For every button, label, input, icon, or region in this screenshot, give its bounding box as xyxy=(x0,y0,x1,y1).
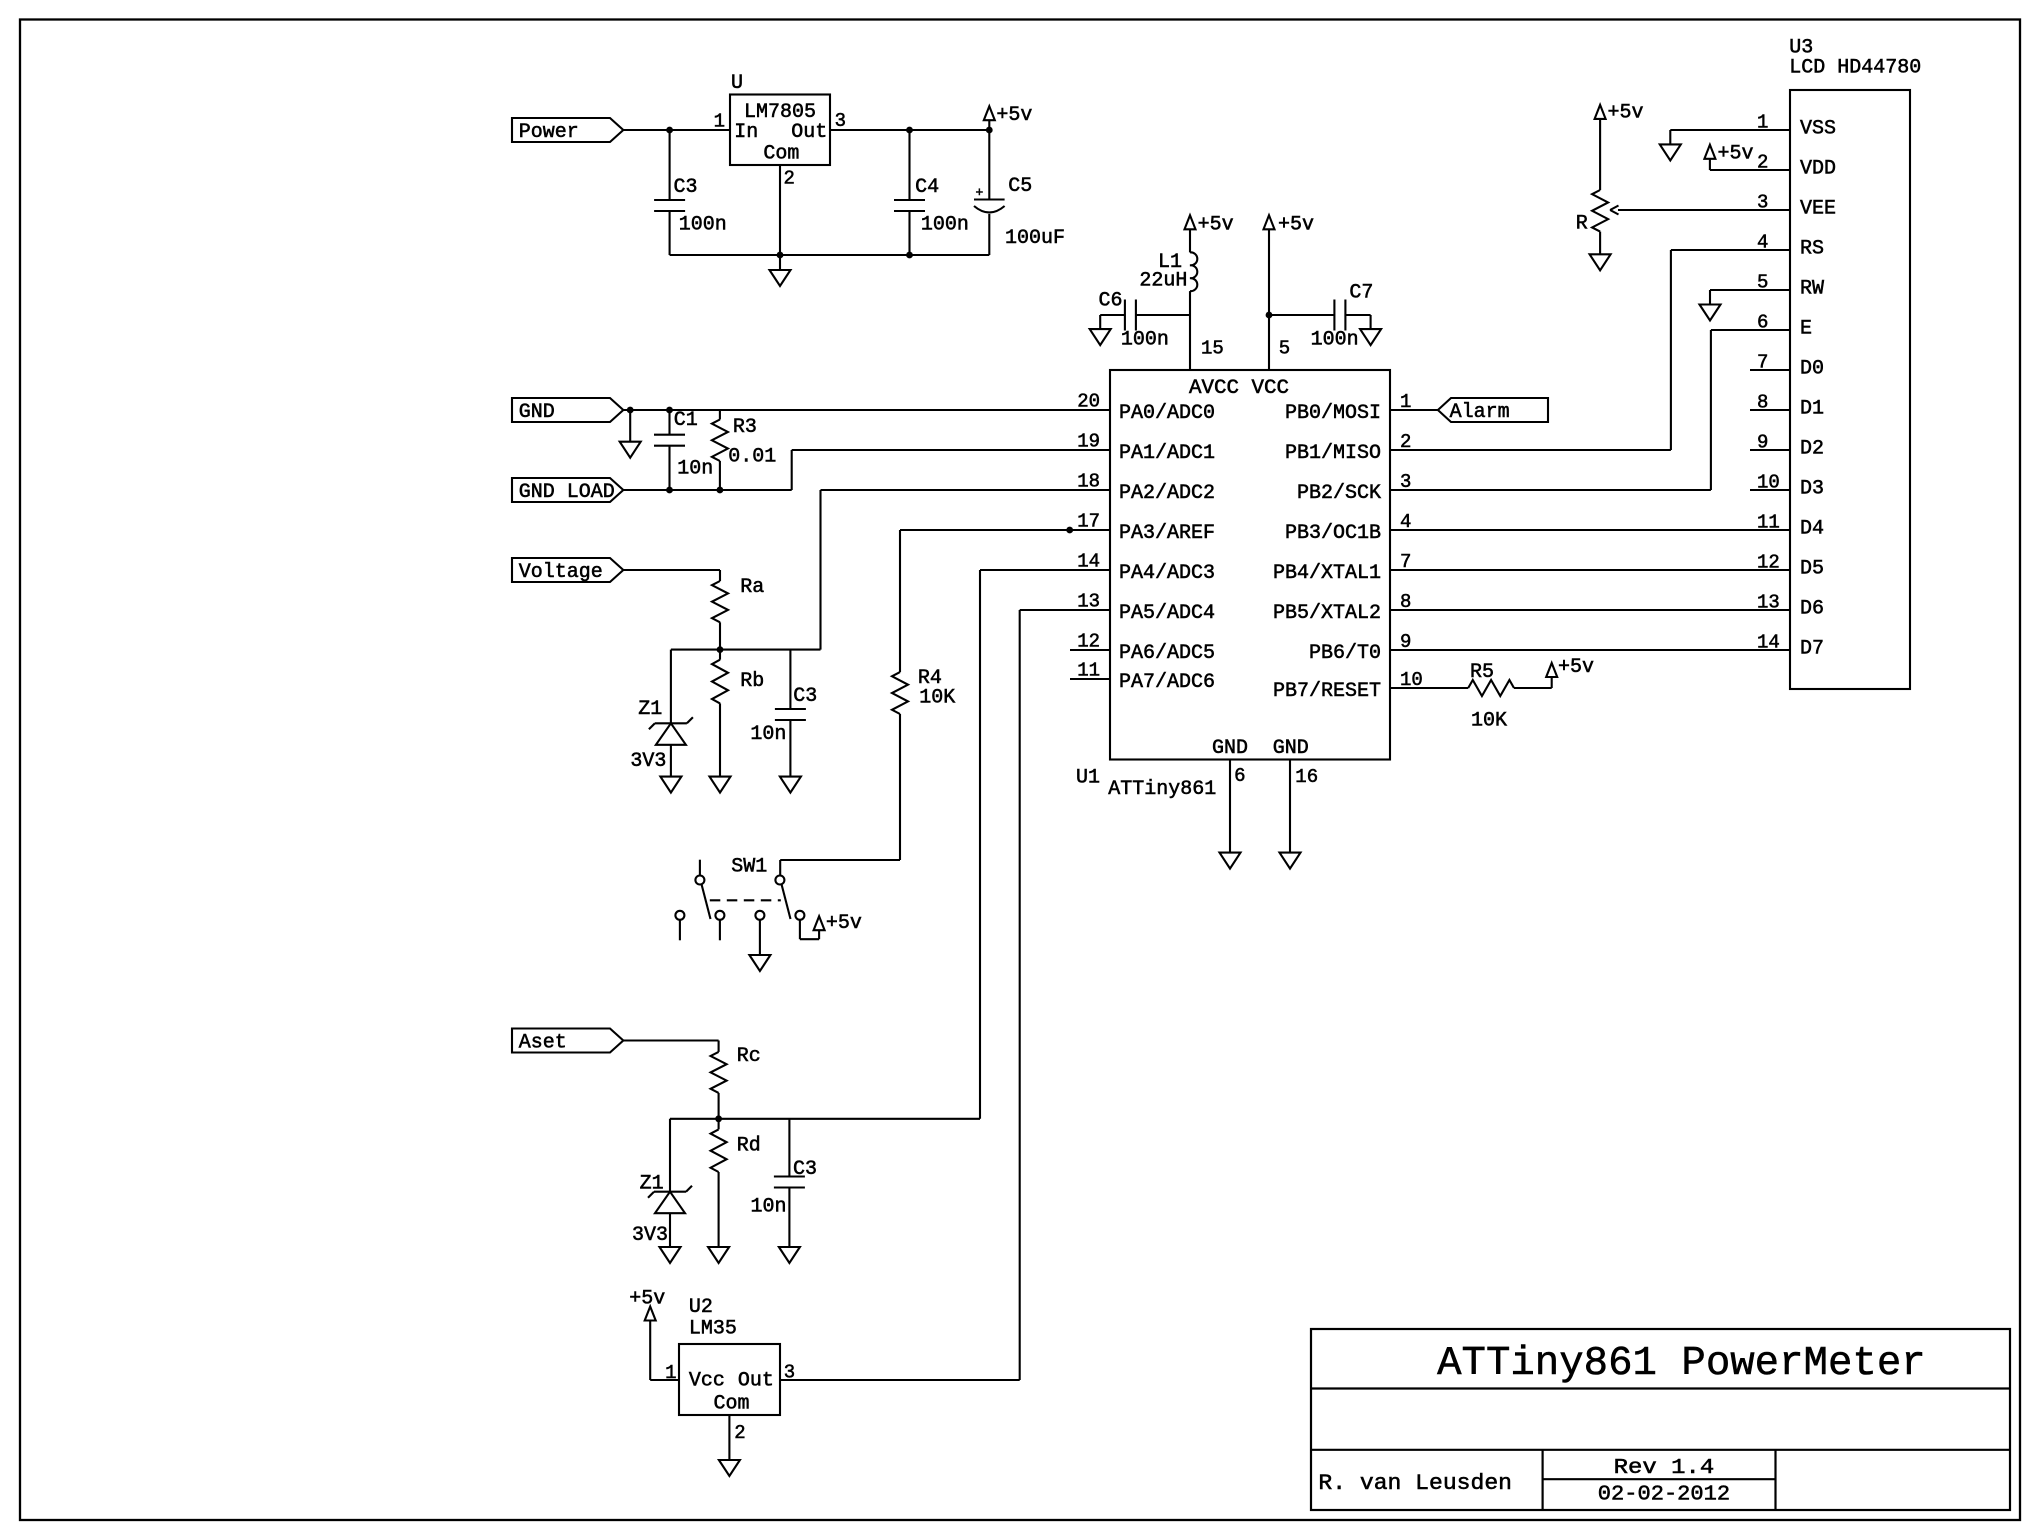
LCD pin name D6 xyxy=(1800,598,1824,621)
label U xyxy=(731,72,743,95)
label +5v xyxy=(996,104,1032,127)
title block vertical divider 1 xyxy=(1541,1450,1543,1510)
svg-text:U: U xyxy=(731,72,743,95)
svg-text:PB5/XTAL2: PB5/XTAL2 xyxy=(1273,602,1381,625)
pin name PA7/ADC6 xyxy=(1119,671,1215,694)
wire R4 bottom to SW1 xyxy=(780,714,900,876)
node junction dot C3-in xyxy=(666,127,673,134)
pin number 14 xyxy=(1077,551,1100,573)
power symbol +5v at VDD xyxy=(1704,145,1715,170)
LCD pin 13 D6 stub xyxy=(1750,609,1790,611)
svg-text:D0: D0 xyxy=(1800,358,1824,381)
ground below power section xyxy=(770,255,791,286)
LCD pin name D1 xyxy=(1800,398,1824,421)
inductor L1 22uH xyxy=(1190,252,1197,315)
node junction dot gnd-sym xyxy=(627,407,634,414)
svg-text:GND LOAD: GND LOAD xyxy=(519,481,615,504)
node junction dot C4-gnd xyxy=(906,252,913,259)
LCD pin number 10 xyxy=(1757,472,1780,494)
LCD pin 2 VDD stub xyxy=(1750,169,1790,171)
label U3 xyxy=(1789,37,1813,60)
value 100n xyxy=(1121,329,1169,352)
node junction dot AREF xyxy=(1066,527,1073,534)
value 10n xyxy=(677,457,713,480)
ic U2 LM35 box xyxy=(679,1344,780,1415)
svg-text:Z1: Z1 xyxy=(640,1173,664,1196)
svg-text:Alarm: Alarm xyxy=(1450,401,1510,424)
pin name PB1/MISO xyxy=(1285,442,1381,465)
svg-text:E: E xyxy=(1800,318,1812,341)
node junction dot C5-out xyxy=(986,127,993,134)
capacitor C3 100n (input) xyxy=(654,130,685,255)
wire PB1/MISO to LCD RS xyxy=(1390,250,1790,450)
LCD pin number 4 xyxy=(1757,232,1768,254)
title block vertical divider 2 xyxy=(1774,1450,1776,1510)
pin name PA0/ADC0 xyxy=(1119,402,1215,425)
capacitor C3 10n (voltage filter) xyxy=(775,650,806,777)
svg-text:13: 13 xyxy=(1757,592,1780,614)
svg-text:10K: 10K xyxy=(919,687,955,710)
svg-text:Aset: Aset xyxy=(519,1032,567,1055)
svg-text:C7: C7 xyxy=(1349,282,1373,305)
label C3 xyxy=(674,176,698,199)
svg-text:02-02-2012: 02-02-2012 xyxy=(1598,1484,1730,1507)
label R3 xyxy=(733,416,757,439)
wire Com pin 2 down xyxy=(728,1415,730,1460)
ground below Z1 xyxy=(660,777,681,793)
svg-text:14: 14 xyxy=(1757,632,1780,654)
pin 12 PA6/ADC5 stub xyxy=(1070,649,1110,651)
wire PB2/SCK to LCD E xyxy=(1390,330,1790,490)
value 100n xyxy=(921,214,969,237)
pin number 9 xyxy=(1400,631,1411,653)
wire VDD xyxy=(1710,169,1750,171)
svg-text:10: 10 xyxy=(1757,472,1780,494)
pin 19 PA1/ADC1 stub xyxy=(1070,449,1110,451)
svg-text:10K: 10K xyxy=(1471,710,1507,733)
ground below C7 xyxy=(1360,315,1381,345)
pin name PB4/XTAL1 xyxy=(1273,562,1381,585)
wire Out to +5v xyxy=(830,129,989,131)
pin name PB5/XTAL2 xyxy=(1273,602,1381,625)
svg-text:D3: D3 xyxy=(1800,478,1824,501)
label R xyxy=(1576,213,1588,236)
wire ground bus of power section xyxy=(670,254,990,256)
svg-text:Ra: Ra xyxy=(740,576,764,599)
LCD pin name RW xyxy=(1800,278,1824,301)
capacitor C4 100n (output) xyxy=(894,130,925,255)
svg-text:16: 16 xyxy=(1295,766,1318,788)
svg-text:C4: C4 xyxy=(915,176,939,199)
value 10K xyxy=(1471,710,1507,733)
wire divider node horizontal xyxy=(671,649,821,651)
pin 1 PB0/MOSI stub xyxy=(1390,409,1430,411)
LCD pin name E xyxy=(1800,318,1812,341)
LCD pin number 13 xyxy=(1757,592,1780,614)
resistor Rc xyxy=(711,1041,727,1119)
svg-text:U2: U2 xyxy=(689,1296,713,1319)
zener diode Z1 3V3 (voltage) xyxy=(649,650,693,777)
pin 16 GND vertical xyxy=(1289,760,1291,853)
svg-text:C5: C5 xyxy=(1008,175,1032,198)
pin 15 AVCC vertical xyxy=(1189,315,1191,370)
svg-text:10n: 10n xyxy=(751,1195,787,1218)
wire PA3/AREF pin 17 xyxy=(900,529,1110,531)
svg-text:+5v: +5v xyxy=(826,912,862,935)
svg-text:VDD: VDD xyxy=(1800,158,1836,181)
svg-text:Z1: Z1 xyxy=(638,698,662,721)
pin number 3 of U2 xyxy=(784,1362,795,1384)
svg-text:LM35: LM35 xyxy=(689,1318,737,1341)
LCD pin number 12 xyxy=(1757,552,1780,574)
svg-text:+5v: +5v xyxy=(1558,656,1594,679)
pin 3 PB2/SCK stub xyxy=(1390,489,1430,491)
node junction dot C1-top xyxy=(666,407,673,414)
label Z1 xyxy=(638,698,662,721)
pin 2 PB1/MISO stub xyxy=(1390,449,1430,451)
svg-text:10n: 10n xyxy=(677,457,713,480)
pin number 10 xyxy=(1400,669,1423,691)
power symbol +5v at regulator output xyxy=(984,106,995,130)
power symbol +5v at R5 xyxy=(1546,663,1557,677)
LCD pin 14 D7 stub xyxy=(1750,649,1790,651)
LCD pin 10 D3 stub xyxy=(1750,489,1790,491)
svg-text:PB0/MOSI: PB0/MOSI xyxy=(1285,402,1381,425)
pin number 15 xyxy=(1201,338,1224,360)
label LM35 xyxy=(689,1318,737,1341)
node junction dot R3-bottom xyxy=(717,487,724,494)
power symbol +5v at potentiometer xyxy=(1595,105,1606,119)
svg-text:+5v: +5v xyxy=(1608,102,1644,125)
wire VEE to potentiometer wiper xyxy=(1610,206,1750,215)
connector flag GND xyxy=(512,398,623,424)
pin number 12 xyxy=(1077,631,1100,653)
value 3V3 xyxy=(632,1224,668,1247)
value 10n xyxy=(750,723,786,746)
wire Aset to Rc xyxy=(623,1039,718,1041)
label AVCC VCC xyxy=(1189,377,1289,400)
svg-text:PA7/ADC6: PA7/ADC6 xyxy=(1119,671,1215,694)
label Rb xyxy=(740,670,764,693)
pin name PB7/RESET xyxy=(1273,680,1381,703)
LCD pin number 14 xyxy=(1757,632,1780,654)
potentiometer R xyxy=(1592,120,1608,254)
label +5v xyxy=(826,912,862,935)
svg-text:6: 6 xyxy=(1757,312,1768,334)
svg-text:18: 18 xyxy=(1077,471,1100,493)
switch SW1 xyxy=(675,860,804,941)
svg-text:PB4/XTAL1: PB4/XTAL1 xyxy=(1273,562,1381,585)
LCD pin name D5 xyxy=(1800,558,1824,581)
svg-text:PA1/ADC1: PA1/ADC1 xyxy=(1119,442,1215,465)
label R4 xyxy=(918,667,942,690)
resistor Rd xyxy=(711,1119,727,1247)
svg-text:LCD HD44780: LCD HD44780 xyxy=(1789,57,1921,80)
title ATTiny861 PowerMeter xyxy=(1437,1341,1926,1387)
svg-text:PB6/T0: PB6/T0 xyxy=(1309,642,1381,665)
value 10K xyxy=(919,687,955,710)
ground below GND flag xyxy=(620,410,641,458)
pin 4 PB3/OC1B stub xyxy=(1390,529,1430,531)
pin 6 GND vertical xyxy=(1229,760,1231,853)
svg-text:D1: D1 xyxy=(1800,398,1824,421)
svg-text:22uH: 22uH xyxy=(1139,270,1187,293)
LCD pin name VDD xyxy=(1800,158,1836,181)
pin 14 PA4/ADC3 stub xyxy=(1070,569,1110,571)
pin label Com xyxy=(763,143,799,166)
svg-text:Rb: Rb xyxy=(740,670,764,693)
LCD pin 4 RS stub xyxy=(1750,249,1790,251)
svg-text:+5v: +5v xyxy=(1278,213,1314,236)
svg-text:In: In xyxy=(734,121,758,144)
LCD pin name D0 xyxy=(1800,358,1824,381)
pin number 4 xyxy=(1400,511,1411,533)
svg-text:Power: Power xyxy=(519,121,579,144)
svg-text:12: 12 xyxy=(1757,552,1780,574)
svg-text:+: + xyxy=(976,185,984,200)
capacitor C7 100n xyxy=(1269,300,1371,331)
LCD pin 12 D5 stub xyxy=(1750,569,1790,571)
svg-text:R: R xyxy=(1576,213,1588,236)
pin number 19 xyxy=(1077,431,1100,453)
label C3 xyxy=(793,685,817,708)
pin 13 PA5/ADC4 stub xyxy=(1070,609,1110,611)
resistor Rb xyxy=(712,650,728,777)
pin number 2 xyxy=(1400,431,1411,453)
label Rc xyxy=(737,1045,761,1068)
svg-text:SW1: SW1 xyxy=(731,856,767,879)
value 22uH xyxy=(1139,270,1187,293)
wire Aset divider node xyxy=(670,1118,980,1120)
svg-text:1: 1 xyxy=(714,111,725,133)
svg-text:20: 20 xyxy=(1077,391,1100,413)
LCD pin name D3 xyxy=(1800,478,1824,501)
connector flag Power xyxy=(512,118,623,144)
LCD pin 9 D2 stub xyxy=(1750,449,1790,451)
wire SW1 pole 4 to +5v xyxy=(800,920,819,939)
LCD pin name RS xyxy=(1800,238,1824,261)
pin name PA1/ADC1 xyxy=(1119,442,1215,465)
LCD pin name D7 xyxy=(1800,638,1824,661)
svg-text:Com: Com xyxy=(763,143,799,166)
svg-text:100n: 100n xyxy=(679,214,727,237)
ground below pin 6 xyxy=(1220,853,1241,869)
svg-text:1: 1 xyxy=(1757,112,1768,134)
resistor R3 0.01 shunt xyxy=(712,410,728,490)
pin number 16 xyxy=(1295,766,1318,788)
pin number 17 xyxy=(1077,511,1100,533)
wire LM35 Out to PA5 pin 13 xyxy=(780,610,1110,1380)
node junction dot com-gnd xyxy=(777,252,784,259)
pin 18 PA2/ADC2 stub xyxy=(1070,489,1110,491)
wire PB7 to R5 xyxy=(1390,687,1468,689)
ground below Rd xyxy=(708,1247,729,1263)
svg-text:C6: C6 xyxy=(1099,290,1123,313)
label R5 xyxy=(1470,661,1494,684)
label LCD HD44780 xyxy=(1789,57,1921,80)
pin name PB6/T0 xyxy=(1309,642,1381,665)
wire PB6 to LCD D7 xyxy=(1390,649,1790,651)
wire +5v to Vcc pin 1 xyxy=(650,1379,679,1381)
label LM7805 xyxy=(744,101,816,124)
LCD pin 5 RW stub xyxy=(1750,289,1790,291)
LCD pin 8 D1 stub xyxy=(1750,409,1790,411)
label C4 xyxy=(915,176,939,199)
svg-text:17: 17 xyxy=(1077,511,1100,533)
ground below C6 xyxy=(1090,315,1111,345)
pin number 7 xyxy=(1400,551,1411,573)
svg-text:PA2/ADC2: PA2/ADC2 xyxy=(1119,482,1215,505)
ic U1 ATTiny861 box xyxy=(1110,370,1390,760)
svg-text:PA6/ADC5: PA6/ADC5 xyxy=(1119,642,1215,665)
svg-text:7: 7 xyxy=(1757,352,1768,374)
wire GND to PA0 pin 20 xyxy=(623,409,1110,411)
wire AREF down to R4 xyxy=(899,530,901,672)
label SW1 xyxy=(731,856,767,879)
pin number 1 of U2 xyxy=(665,1362,676,1384)
svg-text:C3: C3 xyxy=(793,685,817,708)
svg-text:5: 5 xyxy=(1279,338,1290,360)
LCD pin 1 VSS stub xyxy=(1750,129,1790,131)
svg-text:100n: 100n xyxy=(1311,329,1359,352)
label L1 xyxy=(1158,251,1182,274)
wire PB5 to LCD D6 xyxy=(1390,609,1790,611)
svg-text:3V3: 3V3 xyxy=(630,750,666,773)
svg-text:Rev 1.4: Rev 1.4 xyxy=(1614,1457,1715,1480)
ground below Z1 (Aset) xyxy=(660,1247,681,1263)
svg-text:PA5/ADC4: PA5/ADC4 xyxy=(1119,602,1215,625)
pin 10 PB7/RESET stub xyxy=(1390,687,1430,689)
pin label Out xyxy=(738,1370,774,1393)
value 0.01 xyxy=(728,446,776,469)
resistor R5 10K xyxy=(1468,680,1514,696)
pin 9 PB6/T0 stub xyxy=(1390,649,1430,651)
capacitor C5 100uF electrolytic xyxy=(974,130,1005,255)
svg-text:+5v: +5v xyxy=(629,1288,665,1311)
pin name PB2/SCK xyxy=(1297,482,1381,505)
svg-text:RW: RW xyxy=(1800,278,1824,301)
power symbol +5v VCC xyxy=(1264,215,1275,315)
label GND (pin16) xyxy=(1273,737,1309,760)
svg-text:ATTiny861: ATTiny861 xyxy=(1108,778,1216,801)
LCD pin number 8 xyxy=(1757,392,1768,414)
wire Com pin 2 down xyxy=(779,165,781,255)
label U2 xyxy=(689,1296,713,1319)
wire Voltage to Ra xyxy=(623,569,720,571)
label C7 xyxy=(1349,282,1373,305)
svg-text:3V3: 3V3 xyxy=(632,1224,668,1247)
LCD pin number 11 xyxy=(1757,512,1780,534)
resistor Ra xyxy=(712,570,728,650)
svg-text:Out: Out xyxy=(791,121,827,144)
svg-text:12: 12 xyxy=(1077,631,1100,653)
ground below C3 xyxy=(780,777,801,793)
ic U3 LCD HD44780 box xyxy=(1790,90,1910,689)
LCD pin number 2 xyxy=(1757,152,1768,174)
LCD pin number 7 xyxy=(1757,352,1768,374)
label +5v xyxy=(1198,213,1234,236)
svg-text:100n: 100n xyxy=(1121,329,1169,352)
svg-text:AVCC VCC: AVCC VCC xyxy=(1189,377,1289,400)
value 100n xyxy=(1311,329,1359,352)
node junction dot C4-out xyxy=(906,127,913,134)
svg-text:3: 3 xyxy=(835,110,846,132)
svg-text:PA0/ADC0: PA0/ADC0 xyxy=(1119,402,1215,425)
node junction dot Rc-Rd xyxy=(715,1115,722,1122)
node junction dot C1-bottom xyxy=(666,487,673,494)
connector flag GND LOAD xyxy=(512,478,623,504)
svg-text:ATTiny861 PowerMeter: ATTiny861 PowerMeter xyxy=(1437,1341,1926,1387)
pin number 8 xyxy=(1400,591,1411,613)
voltage regulator U LM7805 box xyxy=(730,95,830,166)
LCD pin 11 D4 stub xyxy=(1750,529,1790,531)
label C1 xyxy=(674,409,698,432)
wire up to PA2 pin 18 xyxy=(821,490,1111,650)
LCD pin number 9 xyxy=(1757,432,1768,454)
svg-text:D2: D2 xyxy=(1800,438,1824,461)
LCD pin 6 E stub xyxy=(1750,329,1790,331)
svg-text:+5v: +5v xyxy=(996,104,1032,127)
svg-text:10n: 10n xyxy=(750,723,786,746)
connector flag Aset xyxy=(512,1029,623,1055)
LCD pin number 1 xyxy=(1757,112,1768,134)
wire PB3 to LCD D4 xyxy=(1390,529,1790,531)
svg-text:PA4/ADC3: PA4/ADC3 xyxy=(1119,562,1215,585)
pin label Vcc xyxy=(689,1370,725,1393)
pin number 1 of U xyxy=(714,111,725,133)
value 100uF xyxy=(1005,227,1065,250)
svg-text:+5v: +5v xyxy=(1198,213,1234,236)
wire PB0 to Alarm xyxy=(1390,409,1438,411)
pin name PA5/ADC4 xyxy=(1119,602,1215,625)
svg-text:2: 2 xyxy=(784,168,795,190)
power symbol +5v at SW1 xyxy=(814,916,825,930)
pin 8 PB5/XTAL2 stub xyxy=(1390,609,1430,611)
ground below SW1 pole 3 xyxy=(749,920,770,971)
svg-text:2: 2 xyxy=(734,1422,745,1444)
svg-text:PA3/AREF: PA3/AREF xyxy=(1119,522,1215,545)
LCD pin number 5 xyxy=(1757,272,1768,294)
svg-text:100uF: 100uF xyxy=(1005,227,1065,250)
label +5v xyxy=(1718,143,1754,166)
svg-text:Vcc: Vcc xyxy=(689,1370,725,1393)
wire up to PA4 pin 14 xyxy=(980,570,1110,1119)
label C5 xyxy=(1008,175,1032,198)
pin 7 PB4/XTAL1 stub xyxy=(1390,569,1430,571)
LCD pin number 6 xyxy=(1757,312,1768,334)
label C3 xyxy=(793,1158,817,1181)
resistor R4 10K xyxy=(892,672,908,714)
label +5v xyxy=(1278,213,1314,236)
svg-text:C3: C3 xyxy=(793,1158,817,1181)
svg-text:9: 9 xyxy=(1757,432,1768,454)
label Ra xyxy=(740,576,764,599)
pin number 18 xyxy=(1077,471,1100,493)
wire GND LOAD bus xyxy=(623,489,791,491)
pin name PA4/ADC3 xyxy=(1119,562,1215,585)
connector flag Voltage xyxy=(512,558,623,584)
pin number 1 xyxy=(1400,391,1411,413)
pin number 20 xyxy=(1077,391,1100,413)
svg-text:GND: GND xyxy=(1212,737,1248,760)
svg-text:11: 11 xyxy=(1077,660,1100,682)
LCD pin name VSS xyxy=(1800,118,1836,141)
power symbol +5v at LM35 xyxy=(645,1307,656,1381)
svg-text:GND: GND xyxy=(519,401,555,424)
zener diode Z1 3V3 (Aset) xyxy=(648,1119,692,1247)
pin 20 PA0/ADC0 stub xyxy=(1070,409,1110,411)
pin number 3 of U xyxy=(835,110,846,132)
